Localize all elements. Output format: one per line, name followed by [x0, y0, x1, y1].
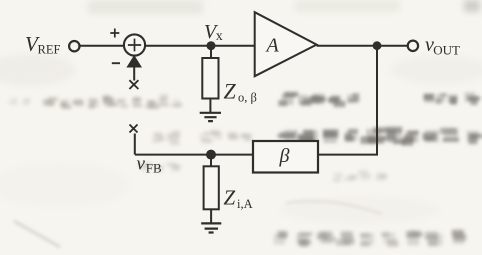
svg-text:REF: REF	[38, 43, 61, 57]
svg-text:β: β	[279, 145, 290, 167]
svg-text:FB: FB	[146, 161, 162, 176]
svg-text:v: v	[137, 154, 146, 175]
svg-text:OUT: OUT	[433, 42, 460, 57]
svg-text:Z: Z	[224, 79, 237, 104]
svg-text:o, β: o, β	[238, 91, 257, 105]
svg-text:i,A: i,A	[237, 197, 253, 211]
svg-text:x: x	[216, 29, 223, 44]
svg-text:A: A	[265, 35, 280, 57]
svg-text:Z: Z	[224, 186, 236, 210]
